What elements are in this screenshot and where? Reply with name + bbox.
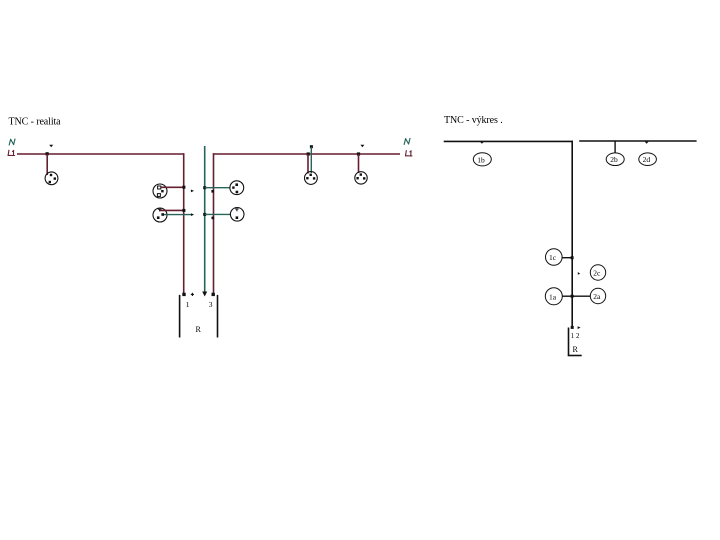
socket 5	[305, 172, 318, 185]
switch 1c	[546, 249, 563, 266]
junction square on right riser (D)	[212, 217, 215, 220]
appliance R (left) left wall	[179, 295, 181, 338]
lamp 2d	[639, 153, 657, 166]
wire L1 top right segment	[213, 153, 400, 155]
wire drop to socket 1	[46, 154, 48, 175]
svg-text:TNC - realita: TNC - realita	[9, 117, 62, 128]
wire L1 top left segment	[17, 153, 184, 155]
node N label right	[404, 138, 410, 144]
svg-text:1b: 1b	[477, 155, 485, 164]
junction square on riser (B)	[182, 209, 185, 212]
svg-text:3: 3	[209, 300, 213, 309]
wire L1 right riser (down to appliance)	[213, 153, 215, 294]
node N label left	[9, 139, 15, 145]
wire PEN riser (teal)	[204, 146, 206, 293]
junction dot at node 5	[307, 152, 310, 155]
svg-text:R: R	[196, 325, 202, 334]
junction square on right riser (C)	[211, 190, 214, 193]
lamp 2b	[606, 153, 624, 166]
junction dot PEN tap C	[203, 186, 206, 189]
svg-text:2c: 2c	[593, 269, 601, 278]
bus top left segment (right diagram)	[444, 140, 573, 142]
wire PEN drop to socket 5	[310, 147, 312, 173]
node L1 label left	[8, 150, 15, 155]
arrow PEN into appliance	[202, 292, 207, 297]
lamp 1b	[473, 153, 491, 166]
wire drop to socket 6	[358, 154, 360, 173]
marker near riser (2c)	[578, 272, 580, 275]
socket D	[230, 208, 244, 222]
wire PEN to socket C	[205, 187, 231, 189]
svg-text:2a: 2a	[593, 292, 601, 301]
socket 6	[355, 172, 367, 184]
marker arrow above node 6	[360, 145, 364, 147]
marker arrow above lamp 2d	[645, 142, 649, 144]
arrowhead PEN from socket B	[191, 213, 194, 216]
wire 1c to riser	[562, 257, 572, 259]
junction square on riser (A)	[182, 186, 185, 189]
wire stub to lamp 2b	[614, 141, 616, 153]
switch 1a	[545, 288, 562, 305]
svg-text:2d: 2d	[643, 155, 651, 164]
wire drop to socket 5	[307, 154, 309, 174]
svg-text:TNC - výkres .: TNC - výkres .	[444, 115, 503, 126]
appliance R (left) right wall	[217, 295, 219, 338]
svg-text:R: R	[573, 345, 579, 354]
marker arrow above node 1	[49, 145, 53, 147]
marker arrowhead at appliance (right)	[578, 326, 581, 329]
node L1 label right	[406, 151, 413, 156]
node dot PEN tap 5	[310, 145, 313, 148]
svg-text:1c: 1c	[549, 253, 557, 262]
switch 2a	[590, 288, 605, 303]
socket C	[230, 181, 244, 195]
wire PEN to socket D	[205, 213, 231, 215]
wire socket A to L1 riser	[161, 186, 184, 188]
wire L1 left riser (down to appliance)	[183, 153, 185, 294]
bus top right segment (right diagram)	[579, 140, 696, 142]
node dot in socket B	[161, 213, 164, 216]
wire riser to 2a	[572, 295, 590, 297]
junction dot (1a/2a)	[571, 295, 574, 298]
svg-text:1: 1	[186, 300, 190, 309]
marker arrowhead right of riser (A)	[191, 190, 194, 193]
junction dot at node 1	[46, 152, 49, 155]
switch 2c	[590, 265, 605, 280]
appliance R (right) bottom wall	[568, 355, 582, 357]
socket 1	[45, 172, 58, 185]
wire 1a to riser	[562, 295, 572, 297]
terminal square L1 left at appliance	[182, 293, 185, 296]
wire PEN from socket B with arrowhead	[162, 214, 191, 216]
svg-text:1a: 1a	[549, 292, 557, 301]
socket A	[153, 184, 167, 198]
junction dot at node 6	[357, 152, 360, 155]
appliance R (right) left wall	[568, 328, 570, 356]
terminal square L1 right at appliance	[212, 293, 215, 296]
terminal square at appliance (right)	[571, 326, 574, 329]
junction dot PEN tap D	[203, 213, 206, 216]
junction square (1c)	[571, 256, 574, 259]
socket B	[153, 208, 167, 222]
marker arrow above lamp 1b	[480, 142, 484, 144]
svg-text:1 2: 1 2	[571, 332, 580, 340]
wire socket B to L1 riser	[160, 209, 184, 211]
svg-text:2b: 2b	[610, 155, 618, 164]
terminal cross marker at appliance	[191, 293, 194, 296]
bus drop riser (right diagram)	[571, 141, 573, 327]
